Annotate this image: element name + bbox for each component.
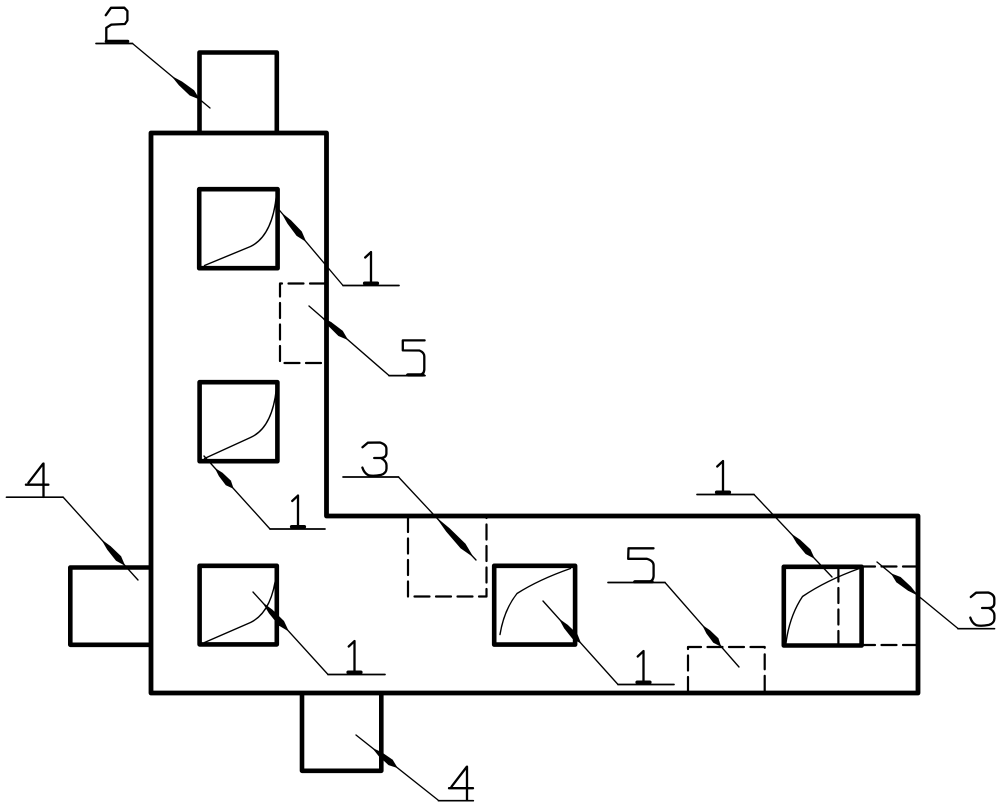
curve inside square 2 (205, 390, 277, 459)
label 2 underline (96, 43, 133, 45)
inner square 4 (1) (494, 566, 575, 645)
outer L-shaped body outline (151, 133, 918, 693)
leader line for label 5 (665, 583, 739, 668)
top attached square (2) (200, 53, 277, 133)
label 1 leader underline (1a) (343, 285, 399, 287)
arrowhead for label 1 (791, 533, 815, 559)
label 1 leader underline (1c) (328, 674, 385, 676)
inner square 5 (1) (784, 567, 862, 646)
numeral 1 (1c) (348, 641, 361, 673)
bottom attached square (4) (302, 694, 381, 771)
leader line for label 3 (877, 562, 958, 629)
arrowhead for label 1 (262, 602, 289, 632)
leader line for label 4 (63, 497, 138, 580)
dashed square 5 (upper, on right wall) (280, 284, 325, 364)
left attached square (4) (70, 568, 150, 645)
dashed square 3 (right, at arm end) (837, 567, 839, 645)
numeral 4 (left) (26, 464, 49, 498)
numeral 3 (left) (362, 443, 386, 476)
numeral 1 (1a) (365, 252, 378, 284)
leader line for label 3 (399, 477, 477, 560)
dashed square 3 (left, under arm top edge) (408, 517, 487, 597)
label 3 (right) underline (958, 628, 995, 630)
arrowhead for label 1 (559, 619, 581, 644)
label 1 leader underline (1b) (270, 528, 325, 530)
arrowhead for label 1 (215, 468, 234, 489)
curve inside square 1 (205, 197, 277, 266)
label 5 (upper) underline (389, 375, 425, 377)
numeral 1 (1e) (717, 461, 730, 493)
dashed square 5 (lower, on arm bottom edge) (688, 647, 765, 692)
arrowhead for label 4 (372, 748, 398, 768)
arrowhead for label 4 (101, 539, 125, 566)
numeral 3 (right) (970, 593, 994, 626)
inner square 3 (1) (200, 566, 277, 645)
numeral 2 (106, 8, 128, 42)
leader line for label 1 (253, 592, 328, 675)
leader line for label 1 (275, 205, 343, 286)
arrowhead for label 5 (321, 316, 348, 340)
numeral 1 (1d) (637, 651, 650, 683)
label 1 leader underline (1e) (697, 494, 754, 496)
numeral 1 (1b) (292, 496, 305, 528)
inner square 1 (1) (199, 189, 277, 268)
inner square 2 (1) (200, 382, 278, 461)
numeral 4 (bottom) (449, 767, 473, 801)
leader line for label 1 (754, 495, 832, 578)
label 3 (left) underline (343, 476, 399, 478)
label 5 (lower) underline (608, 582, 665, 584)
leader line for label 1 (204, 456, 270, 529)
numeral 5 (lower) (628, 548, 653, 582)
arrowhead for label 3 (891, 573, 919, 596)
label 4 (bottom) underline (439, 800, 474, 802)
curve inside square 3 (205, 574, 277, 643)
curve inside square 5 (786, 569, 859, 644)
arrowhead for label 3 (436, 517, 474, 558)
numeral 5 (upper) (403, 340, 425, 375)
leader line for label 2 (133, 44, 211, 109)
arrowhead for label 1 (281, 212, 306, 242)
label 1 leader underline (1d) (618, 684, 674, 686)
label 4 (left) underline (7, 496, 64, 498)
leader line for label 5 (309, 306, 389, 376)
leader line for label 4 (356, 735, 438, 800)
curve inside square 4 (500, 569, 571, 635)
arrowhead for label 2 (171, 76, 200, 100)
leader line for label 1 (543, 601, 618, 685)
arrowhead for label 5 (702, 625, 721, 647)
